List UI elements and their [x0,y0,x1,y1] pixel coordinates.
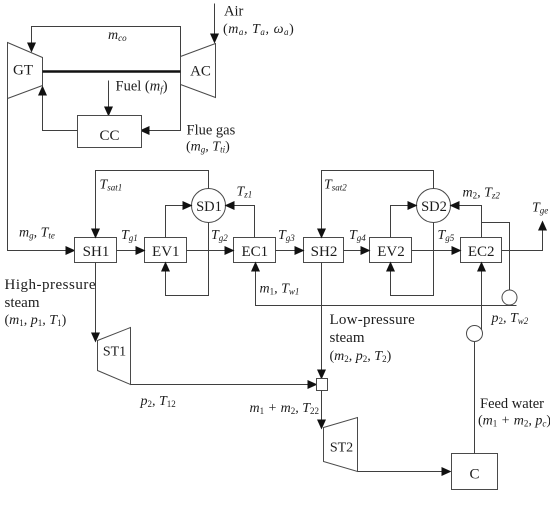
svg-text:ST2: ST2 [330,441,353,456]
svg-text:Fuel (mf): Fuel (mf) [116,79,168,95]
superheater SH2 [304,238,344,263]
economizer EC2 [461,238,502,263]
junction node mixer [317,379,328,391]
wire HP steam SH1 to ST1 [95,263,97,342]
wire gas EV2 to EC2 [412,250,461,252]
evaporator EV1 [145,238,187,263]
combustion chamber CC [78,116,142,148]
steam turbine ST1 [98,328,131,385]
svg-text:SD2: SD2 [421,199,447,215]
wire saturated steam SD1 to SH1 [96,171,209,238]
steam drum SD1 [192,189,226,223]
superheater SH1 [75,238,117,263]
wire air inlet [214,4,216,43]
svg-text:High-pressure: High-pressure [5,277,96,293]
pump HP circle [502,290,517,305]
svg-text:GT: GT [13,63,33,79]
svg-text:EV1: EV1 [152,244,180,260]
economizer EC1 [234,238,276,263]
wire ST1 exhaust to junction [131,384,317,386]
svg-text:steam: steam [330,330,365,346]
svg-text:CC: CC [99,128,119,144]
wire feed water pump to EC2 [481,263,483,330]
wire riser EV2 to SD2 [391,206,417,238]
wire saturated steam SD2 to SH2 [322,171,434,238]
wire cooling air mco AC to GT [32,27,181,57]
wire feed water main to EC1 [256,263,517,306]
svg-text:(ma, Ta, ωa): (ma, Ta, ωa) [223,22,294,37]
wire exhaust GT to SH1 [8,99,75,251]
steam turbine ST2 [324,418,358,472]
wire fuel into CC [108,81,110,116]
svg-text:EV2: EV2 [377,244,405,260]
wire downcomer SD1 to EV1 [166,223,209,296]
wire downcomer SD2 to EV2 [391,223,434,296]
steam drum SD2 [417,189,451,223]
wire junction to ST2 [321,391,323,429]
wire LP steam SH2 to junction [321,263,323,379]
wire gas EC2 to stack [502,222,543,251]
svg-text:C: C [469,467,479,483]
svg-text:SD1: SD1 [196,199,222,215]
wire pump branch EC2 top to HP pump [482,223,510,291]
svg-text:SH2: SH2 [311,244,338,260]
svg-text:steam: steam [5,295,40,311]
wire riser EV1 to SD1 [166,206,192,238]
turbine GT [8,43,43,99]
wire gas SH1 to EV1 [117,250,145,252]
svg-text:Flue gas: Flue gas [187,123,236,139]
svg-text:Feed water: Feed water [480,396,544,412]
svg-text:Air: Air [224,4,244,20]
svg-text:EC2: EC2 [468,244,495,260]
wire ST2 exhaust to condenser [358,471,451,473]
svg-text:ST1: ST1 [103,345,126,360]
wire gas EV1 to EC1 [187,250,234,252]
compressor AC [181,44,216,98]
wire air AC to CC [141,85,181,131]
wire EC1 to SD1 [226,206,255,238]
svg-text:(m1 + m2, pc): (m1 + m2, pc) [478,414,550,429]
pump feed circle [467,326,483,342]
wire flue gas CC to GT [43,87,78,131]
svg-text:AC: AC [190,64,211,80]
condenser C [452,454,498,490]
svg-text:SH1: SH1 [83,244,110,260]
shaft GT-AC [43,70,181,73]
evaporator EV2 [370,238,412,263]
wire EC2 to SD2 [451,206,482,238]
wire condensate C to feed pump [474,342,476,454]
svg-text:Low-pressure: Low-pressure [330,312,416,328]
wire gas SH2 to EV2 [344,250,370,252]
wire gas EC1 to SH2 [276,250,304,252]
svg-text:EC1: EC1 [241,244,268,260]
